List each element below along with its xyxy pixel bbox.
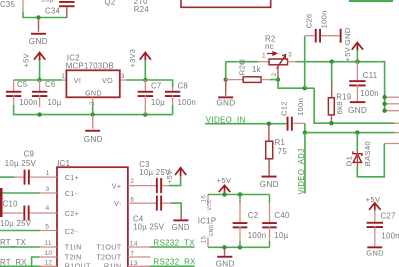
wire bbox=[270, 79, 278, 81]
op IC2 box bbox=[66, 70, 119, 97]
pin 6 stub IC1 bbox=[128, 202, 156, 204]
supply +5V arrow bbox=[34, 53, 45, 60]
svg-text:C40: C40 bbox=[274, 211, 290, 220]
svg-text:1: 1 bbox=[46, 170, 50, 177]
pin 4 stub IC1 bbox=[30, 212, 58, 214]
pin 3 stub R2 bbox=[288, 61, 297, 63]
junction dot bbox=[303, 86, 307, 90]
svg-text:R1IN: R1IN bbox=[104, 262, 122, 267]
pin stub VCC bbox=[385, 110, 399, 112]
junction dot bbox=[276, 77, 280, 81]
svg-text:Q2: Q2 bbox=[105, 0, 116, 7]
resistor R19 body bbox=[328, 98, 334, 115]
pin 10 stub IC1 bbox=[40, 256, 58, 258]
svg-text:1: 1 bbox=[262, 52, 266, 59]
svg-text:GND: GND bbox=[343, 27, 352, 45]
capacitor C5 bbox=[13, 80, 15, 91]
pin 13 stub IC1 bbox=[128, 265, 151, 267]
svg-text:V-: V- bbox=[114, 199, 122, 208]
wire IC1P top bbox=[208, 194, 270, 196]
svg-text:10µ: 10µ bbox=[41, 0, 54, 4]
capacitor C27 bbox=[374, 210, 376, 222]
resistor R1 bbox=[268, 124, 270, 142]
svg-text:+5V: +5V bbox=[366, 195, 381, 204]
svg-text:R19: R19 bbox=[336, 92, 351, 101]
svg-text:IC1P: IC1P bbox=[198, 217, 217, 226]
svg-text:3: 3 bbox=[46, 186, 50, 193]
junction dot bbox=[91, 112, 95, 116]
wire VIDEO_ADJ bbox=[304, 133, 306, 194]
wire bbox=[357, 144, 384, 177]
capacitor C10 bbox=[3, 212, 24, 214]
wire IC1P bottom bbox=[208, 246, 270, 248]
junction dot bbox=[330, 60, 334, 64]
svg-text:T2IN: T2IN bbox=[65, 253, 82, 262]
svg-text:C2-: C2- bbox=[65, 227, 78, 236]
diode D1 bbox=[353, 154, 361, 163]
svg-text:RS232_RX: RS232_RX bbox=[153, 258, 196, 267]
wire bbox=[356, 133, 358, 150]
svg-text:3: 3 bbox=[288, 52, 292, 59]
wire bbox=[144, 60, 146, 80]
capacitor C7 bbox=[144, 80, 146, 91]
net wire (top right, clipped) bbox=[349, 0, 393, 2]
wire bbox=[3, 192, 41, 194]
svg-text:14: 14 bbox=[130, 240, 138, 247]
junction dot bbox=[355, 130, 359, 134]
svg-text:RT_TX: RT_TX bbox=[0, 238, 27, 247]
net joint oval bbox=[239, 60, 245, 63]
resistor R20 body bbox=[243, 77, 261, 83]
svg-text:10µ: 10µ bbox=[274, 231, 288, 240]
junction dot bbox=[222, 245, 226, 249]
svg-text:GND: GND bbox=[85, 89, 102, 98]
svg-text:R20: R20 bbox=[238, 60, 247, 75]
junction dot bbox=[238, 192, 242, 196]
wire bbox=[224, 192, 226, 195]
pin 11 stub IC1 bbox=[40, 246, 58, 248]
svg-text:5: 5 bbox=[45, 224, 49, 231]
svg-text:IC1: IC1 bbox=[57, 159, 70, 168]
wire net to mux bbox=[278, 80, 314, 89]
svg-text:GND: GND bbox=[216, 99, 235, 108]
wire bbox=[92, 105, 94, 115]
svg-text:VO: VO bbox=[102, 76, 113, 85]
connector (clipped left edge) bbox=[0, 188, 3, 217]
capacitor C4 bbox=[156, 196, 158, 211]
svg-text:C12: C12 bbox=[279, 101, 288, 116]
svg-text:C35: C35 bbox=[0, 0, 16, 9]
pin stub R20 left bbox=[226, 79, 244, 81]
supply +5V arrow bbox=[369, 203, 380, 210]
svg-text:C6: C6 bbox=[45, 80, 56, 89]
svg-text:100n: 100n bbox=[320, 10, 329, 28]
wire VIDEO_IN bbox=[205, 123, 287, 125]
svg-text:GND: GND bbox=[216, 259, 235, 267]
wire bbox=[39, 60, 41, 80]
pin 5 stub IC1 bbox=[40, 230, 58, 232]
wire bbox=[0, 246, 40, 248]
pin stub R19 top bbox=[331, 85, 333, 98]
svg-text:MCP1703DB: MCP1703DB bbox=[66, 62, 114, 71]
capacitor C40 bbox=[269, 195, 271, 204]
wire bbox=[0, 230, 40, 232]
wire bbox=[171, 203, 181, 213]
svg-text:T2OUT: T2OUT bbox=[96, 253, 121, 262]
pin 3 stub IC2 bbox=[120, 79, 128, 81]
supply +5V arrow bbox=[352, 43, 363, 50]
pin stub VCC bbox=[385, 96, 399, 98]
capacitor C6 bbox=[39, 80, 41, 91]
junction dot bbox=[382, 102, 386, 106]
capacitor C11 bbox=[356, 62, 358, 80]
junction dot bbox=[224, 77, 228, 81]
trimmer R2 arrow bbox=[267, 52, 276, 55]
svg-text:GND: GND bbox=[209, 225, 215, 237]
junction dot bbox=[267, 122, 271, 126]
junction dot bbox=[36, 15, 40, 19]
svg-text:D1: D1 bbox=[345, 156, 354, 166]
wire bbox=[0, 176, 15, 178]
svg-text:R1: R1 bbox=[275, 138, 286, 147]
wire bbox=[0, 265, 40, 267]
svg-text:10: 10 bbox=[44, 250, 52, 257]
svg-text:T1OUT: T1OUT bbox=[96, 243, 121, 252]
wire from C35 (clipped top left) bbox=[22, 0, 24, 13]
svg-text:C1+: C1+ bbox=[65, 173, 79, 182]
supply +3V3 arrow bbox=[140, 53, 151, 60]
wire bbox=[169, 176, 181, 186]
wire bbox=[304, 123, 306, 132]
ground GND rotated (C26) bbox=[340, 29, 342, 43]
svg-text:2: 2 bbox=[271, 72, 278, 76]
svg-text:6k8: 6k8 bbox=[335, 101, 344, 114]
svg-text:C26: C26 bbox=[305, 14, 314, 29]
svg-text:10µ: 10µ bbox=[48, 98, 62, 107]
capacitor C26 bbox=[306, 35, 315, 37]
junction dot bbox=[382, 95, 386, 99]
wire bbox=[331, 62, 333, 86]
svg-text:C11: C11 bbox=[363, 71, 378, 80]
svg-text:C8: C8 bbox=[178, 82, 189, 91]
svg-text:C5: C5 bbox=[17, 80, 28, 89]
pin 1 stub IC1 bbox=[30, 176, 57, 178]
wire bbox=[356, 50, 358, 62]
pin 7 stub IC1 bbox=[128, 256, 151, 258]
svg-text:GND: GND bbox=[260, 180, 279, 189]
svg-text:100n: 100n bbox=[296, 98, 305, 116]
svg-text:nc: nc bbox=[265, 42, 274, 51]
svg-text:T1IN: T1IN bbox=[65, 243, 82, 252]
svg-text:12: 12 bbox=[44, 260, 52, 267]
svg-text:C1-: C1- bbox=[65, 189, 78, 198]
pin 12 stub IC1 bbox=[40, 265, 58, 267]
junction dot bbox=[143, 78, 147, 82]
svg-text:+5V: +5V bbox=[22, 53, 31, 67]
svg-text:C7: C7 bbox=[151, 82, 162, 91]
svg-text:C2: C2 bbox=[248, 211, 259, 220]
capacitor C2 bbox=[239, 195, 241, 204]
svg-text:V+: V+ bbox=[112, 182, 122, 191]
svg-text:GND: GND bbox=[84, 135, 103, 144]
pin 3 stub IC1 bbox=[40, 192, 58, 194]
trimmer R2 wiper diagonal bbox=[277, 55, 286, 69]
pin 1 stub R2 bbox=[258, 61, 270, 63]
pin stub (right edge) bbox=[384, 143, 399, 145]
junction dot bbox=[222, 192, 226, 196]
ground GND (IC1P) bbox=[224, 247, 226, 256]
svg-text:10µ: 10µ bbox=[151, 98, 165, 107]
wire bbox=[225, 62, 227, 80]
svg-text:GND: GND bbox=[348, 106, 367, 115]
wire RS232_TX bbox=[150, 246, 195, 248]
capacitor C9 bbox=[14, 176, 24, 178]
wire bbox=[226, 61, 259, 63]
pin stub R20 right bbox=[261, 79, 271, 81]
wire bbox=[32, 257, 40, 267]
junction dot bbox=[355, 60, 359, 64]
svg-text:R24: R24 bbox=[134, 5, 150, 14]
trimmer R2 body bbox=[269, 59, 288, 65]
svg-text:1k: 1k bbox=[252, 65, 261, 74]
junction dot bbox=[329, 121, 333, 125]
svg-text:4: 4 bbox=[46, 205, 50, 212]
pin 2 stub IC2 bbox=[92, 97, 94, 105]
supply +5V arrow bbox=[175, 168, 186, 175]
wire bbox=[305, 132, 395, 134]
wire +5V rail bbox=[296, 62, 385, 111]
pin 15 stub IC1P bbox=[207, 237, 209, 247]
svg-text:+5V: +5V bbox=[165, 170, 174, 184]
pin stub R19 bottom bbox=[330, 115, 332, 123]
svg-text:C9: C9 bbox=[24, 149, 35, 158]
junction dot bbox=[303, 130, 307, 134]
capacitor C34 bbox=[59, 1, 74, 3]
svg-text:3: 3 bbox=[121, 73, 125, 80]
svg-text:100n: 100n bbox=[248, 231, 267, 240]
op IC1 box bbox=[57, 167, 128, 267]
ground GND (under C34) bbox=[38, 18, 40, 32]
capacitor C8 bbox=[172, 87, 174, 91]
svg-text:+5V: +5V bbox=[343, 47, 352, 61]
wire bbox=[23, 12, 67, 18]
component box outline (clipped, top) bbox=[181, 0, 271, 7]
pin 1 stub IC2 bbox=[62, 79, 66, 81]
pin stub (right edge) bbox=[394, 122, 399, 124]
wire bbox=[314, 88, 394, 123]
wire IC2 input bbox=[14, 79, 63, 81]
wire R2 wiper bbox=[277, 65, 279, 80]
capacitor C12 bbox=[287, 117, 289, 131]
svg-text:GND: GND bbox=[366, 248, 384, 257]
svg-text:C34: C34 bbox=[45, 7, 61, 16]
junction dot bbox=[143, 112, 147, 116]
svg-text:+5V: +5V bbox=[217, 176, 232, 185]
pin 14 stub IC1 bbox=[128, 246, 151, 248]
ground GND (C27) bbox=[367, 246, 382, 248]
svg-text:11: 11 bbox=[44, 240, 51, 247]
svg-text:C27: C27 bbox=[381, 211, 396, 220]
svg-text:100n: 100n bbox=[19, 98, 38, 107]
svg-text:100n: 100n bbox=[360, 89, 379, 98]
pin 16 stub IC1P bbox=[207, 195, 209, 205]
svg-text:BAS40: BAS40 bbox=[363, 141, 372, 166]
svg-text:2: 2 bbox=[130, 178, 134, 185]
wire IC2 output bbox=[127, 80, 173, 88]
svg-text:10µ 25V: 10µ 25V bbox=[5, 159, 37, 168]
svg-text:10µ 25V: 10µ 25V bbox=[133, 223, 165, 232]
wire RS232_RX bbox=[150, 265, 195, 267]
svg-text:C2+: C2+ bbox=[65, 209, 79, 218]
junction dot bbox=[37, 78, 41, 82]
wire bbox=[172, 106, 174, 115]
svg-text:RS232_TX: RS232_TX bbox=[153, 238, 195, 247]
svg-text:+3V3: +3V3 bbox=[128, 49, 137, 68]
ground GND (C4) bbox=[180, 213, 182, 220]
svg-text:C10: C10 bbox=[3, 199, 19, 208]
ground GND (R20) bbox=[225, 80, 227, 96]
svg-text:75: 75 bbox=[278, 147, 288, 156]
pin 2 stub IC1 bbox=[128, 185, 156, 187]
svg-text:GND: GND bbox=[172, 223, 190, 232]
supply +5V arrow bbox=[219, 185, 230, 192]
wire C26 to signal bbox=[304, 36, 306, 88]
svg-text:R1OUT: R1OUT bbox=[65, 262, 91, 267]
junction dot bbox=[382, 109, 386, 113]
pin stub VCC bbox=[385, 103, 399, 105]
ground GND (R1) bbox=[262, 176, 277, 178]
svg-text:GND: GND bbox=[29, 37, 48, 46]
svg-text:100n: 100n bbox=[178, 98, 197, 107]
wire bbox=[14, 105, 173, 115]
svg-text:VI: VI bbox=[74, 76, 81, 85]
pin stub (right edge) bbox=[394, 132, 399, 134]
capacitor C3 bbox=[156, 178, 158, 193]
svg-text:10µ 25V: 10µ 25V bbox=[0, 219, 32, 228]
svg-text:100n: 100n bbox=[381, 231, 399, 240]
svg-text:1: 1 bbox=[61, 73, 65, 80]
junction dot bbox=[238, 245, 242, 249]
junction dot bbox=[37, 112, 41, 116]
ground GND (IC2) bbox=[92, 115, 94, 129]
svg-text:15: 15 bbox=[200, 236, 207, 244]
ground GND (C11) bbox=[350, 101, 366, 103]
